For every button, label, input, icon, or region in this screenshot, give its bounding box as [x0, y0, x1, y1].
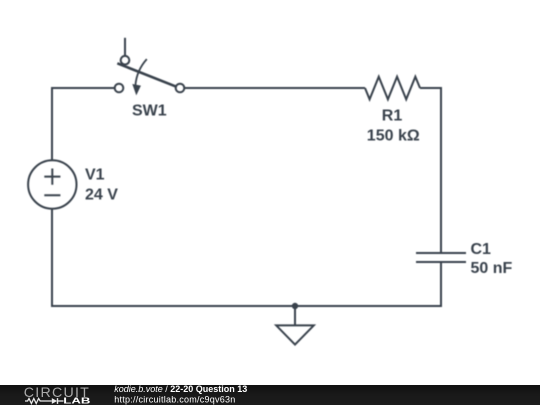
svg-text:50 nF: 50 nF: [471, 260, 513, 277]
ground: [276, 306, 314, 345]
svg-text:R1: R1: [382, 107, 403, 124]
switch action arrow arc: [135, 59, 146, 85]
C1 top plate: [416, 252, 466, 254]
V1 plus sign: [44, 169, 60, 185]
capacitor C1: [416, 253, 466, 262]
wire left vertical lower: [51, 209, 53, 307]
C1 bottom plate: [416, 261, 466, 263]
ground triangle: [276, 325, 314, 344]
svg-text:http://circuitlab.com/c9qv63n: http://circuitlab.com/c9qv63n: [114, 394, 235, 404]
switch left terminal: [115, 84, 124, 93]
wire ground stub: [294, 306, 296, 325]
svg-text:LAB: LAB: [63, 395, 90, 405]
voltage source V1: [28, 160, 76, 208]
junction node: [292, 303, 298, 309]
resistor R1: [365, 77, 420, 100]
footer bar: [0, 385, 540, 406]
svg-text:V1: V1: [85, 167, 105, 184]
wire right vertical upper: [440, 87, 442, 253]
wire resistor to corner: [420, 87, 442, 89]
wire bottom horizontal: [51, 305, 442, 307]
switch arrow head: [132, 84, 141, 95]
CircuitLab logo and caption: [0, 385, 540, 406]
switch right terminal: [176, 84, 185, 93]
switch top terminal: [121, 56, 130, 65]
svg-text:24 V: 24 V: [85, 186, 118, 203]
wire top-right horizontal: [184, 87, 365, 89]
svg-text:150 kΩ: 150 kΩ: [367, 127, 420, 144]
svg-text:kodie.b.vote / 22-20 Question: kodie.b.vote / 22-20 Question 13: [114, 385, 247, 394]
wire left vertical upper: [51, 87, 53, 160]
switch blade: [117, 63, 176, 86]
V1 circle: [28, 160, 76, 208]
switch SW1: [115, 38, 185, 96]
wire right vertical lower: [440, 262, 442, 307]
wire top-left horizontal: [52, 87, 115, 89]
svg-text:SW1: SW1: [132, 103, 167, 120]
V1 minus sign: [44, 194, 60, 196]
wire switch top stub: [124, 38, 126, 56]
svg-text:C1: C1: [471, 241, 492, 258]
